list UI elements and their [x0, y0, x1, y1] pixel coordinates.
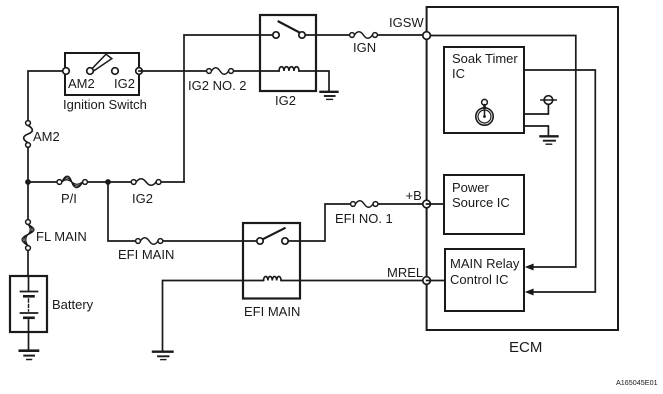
- svg-text:IG2 NO. 2: IG2 NO. 2: [188, 78, 247, 93]
- soak timer IC box: [444, 47, 524, 133]
- wire +B terminal to power source IC: [427, 203, 444, 205]
- svg-text:EFI NO. 1: EFI NO. 1: [335, 211, 393, 226]
- fuse EFI MAIN: [136, 238, 163, 245]
- wire: P/I to junction B: [88, 181, 105, 183]
- wire: battery to ground: [28, 332, 30, 350]
- svg-text:EFI MAIN: EFI MAIN: [244, 304, 300, 319]
- svg-text:Soak Timer: Soak Timer: [452, 51, 518, 66]
- ground (EFI MAIN relay): [153, 352, 173, 360]
- wire: IGN fuse to ECM IGSW terminal: [378, 34, 423, 36]
- fuse IG2: [131, 179, 161, 186]
- svg-text:MAIN Relay: MAIN Relay: [450, 256, 520, 271]
- node +B terminal: [423, 200, 431, 208]
- ground (soak timer): [541, 136, 558, 144]
- wire: junction B down to EFI MAIN fuse: [108, 182, 135, 241]
- wire soak timer to ground: [524, 126, 548, 135]
- fuse IG2 NO. 2: [207, 68, 234, 75]
- node IGSW terminal: [423, 32, 431, 40]
- svg-text:P/I: P/I: [61, 191, 77, 206]
- wire MREL terminal to MAIN relay control IC: [427, 280, 445, 282]
- fuse EFI NO. 1: [351, 201, 378, 208]
- svg-text:MREL: MREL: [387, 265, 423, 280]
- svg-text:IGSW: IGSW: [389, 15, 424, 30]
- wire IGSW inside ECM: [427, 36, 576, 268]
- svg-text:+B: +B: [406, 188, 422, 203]
- wire: FL MAIN to battery: [27, 251, 29, 276]
- wire: IG2 relay coil to ground: [316, 71, 329, 91]
- stopwatch icon: [476, 99, 493, 125]
- svg-text:AM2: AM2: [33, 129, 60, 144]
- wire: EFI NO.1 fuse to ECM +B terminal: [379, 203, 423, 205]
- svg-text:IGN: IGN: [353, 40, 376, 55]
- wire: junction A to P/I: [31, 181, 56, 183]
- svg-text:EFI MAIN: EFI MAIN: [118, 247, 174, 262]
- ground (battery): [20, 351, 38, 360]
- svg-text:Battery: Battery: [52, 297, 94, 312]
- ECM box: [427, 7, 618, 330]
- wire: IG2 fuse to riser: [162, 181, 184, 183]
- svg-text:Control IC: Control IC: [450, 272, 509, 287]
- wire: IG2 relay to IGN fuse: [316, 34, 349, 36]
- svg-text:IG2: IG2: [132, 191, 153, 206]
- power source IC box: [444, 175, 524, 234]
- arrow into MAIN relay control IC (from soak timer): [525, 289, 534, 296]
- svg-text:IG2: IG2: [275, 93, 296, 108]
- svg-text:ECM: ECM: [509, 339, 542, 356]
- svg-text:IG2: IG2: [114, 76, 135, 91]
- fusible link FL MAIN: [22, 220, 34, 251]
- B+ power symbol: [541, 96, 556, 105]
- svg-text:IC: IC: [452, 66, 465, 81]
- wire: EFI MAIN coil to ECM MREL terminal: [300, 280, 423, 282]
- svg-text:Source IC: Source IC: [452, 195, 510, 210]
- wire: ignition switch IG2 to IG2 NO.2 fuse: [139, 70, 206, 72]
- fuse IGN: [350, 32, 378, 39]
- wire: trunk to ignition switch AM2: [28, 71, 65, 121]
- svg-text:A165045E01: A165045E01: [616, 378, 658, 387]
- fuse AM2: [24, 121, 33, 148]
- wire soak timer to B+ symbol: [524, 104, 548, 114]
- ground (IG2 relay): [321, 92, 338, 100]
- arrow into MAIN relay control IC (from IGSW): [525, 264, 534, 271]
- svg-text:FL MAIN: FL MAIN: [36, 229, 87, 244]
- ignition switch: [63, 53, 143, 95]
- fusible link P/I: [57, 176, 87, 187]
- wire soak timer IC output: [524, 70, 595, 292]
- svg-text:Ignition Switch: Ignition Switch: [63, 97, 147, 112]
- wire: EFI MAIN relay switch to EFI NO.1 fuse: [300, 204, 350, 241]
- relay EFI MAIN: [243, 223, 300, 299]
- junction B: [105, 179, 111, 185]
- battery: [10, 276, 47, 332]
- relay IG2: [260, 15, 316, 91]
- wire: IG2 NO.2 fuse to IG2 relay coil: [234, 70, 260, 72]
- wire: AM2 fuse to junction A: [27, 147, 29, 179]
- wire: junction A to FL MAIN: [27, 185, 29, 219]
- MAIN relay control IC box: [445, 249, 524, 311]
- wire: EFI MAIN fuse to relay: [164, 240, 243, 242]
- svg-text:AM2: AM2: [68, 76, 95, 91]
- wire: junction B to IG2 fuse: [111, 181, 131, 183]
- junction A: [25, 179, 31, 185]
- node MREL terminal: [423, 277, 431, 285]
- wire: riser to IG2 relay switch: [184, 35, 260, 182]
- svg-text:Power: Power: [452, 180, 490, 195]
- wire: EFI MAIN coil to ground riser: [163, 281, 244, 351]
